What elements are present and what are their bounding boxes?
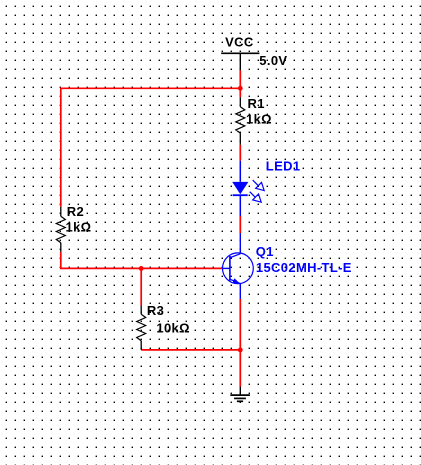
wire R1 to LED1 — [239, 145, 241, 161]
wire Q1 emitter to ground — [239, 299, 241, 387]
value 1kΩ R1 — [246, 111, 272, 126]
svg-text:1kΩ: 1kΩ — [246, 111, 272, 126]
svg-text:LED1: LED1 — [266, 159, 301, 174]
svg-text:VCC: VCC — [225, 34, 254, 49]
wire LED1 to Q1 collector — [239, 216, 241, 233]
label VCC — [225, 34, 254, 49]
label LED1 — [266, 159, 301, 174]
svg-text:R1: R1 — [248, 96, 265, 111]
wire R2 bottom to Q1 base — [61, 252, 223, 269]
ground — [230, 387, 250, 402]
wire left vertical to R2 — [60, 88, 62, 207]
junction at R3 top — [139, 266, 144, 271]
resistor R3 — [137, 306, 146, 350]
svg-text:Q1: Q1 — [256, 244, 274, 259]
label R2 — [67, 204, 84, 219]
wire VCC to R1 — [239, 70, 241, 97]
value 15C02MH-TL-E — [256, 260, 352, 275]
label Q1 — [256, 244, 274, 259]
LED LED1 — [232, 161, 264, 216]
resistor R1 — [236, 97, 245, 145]
value 10kΩ R3 — [156, 321, 190, 336]
junction at VCC rail — [238, 86, 243, 91]
power VCC symbol — [221, 53, 259, 70]
svg-text:15C02MH-TL-E: 15C02MH-TL-E — [256, 260, 352, 275]
resistor R2 — [56, 207, 65, 252]
value 5.0V — [259, 53, 287, 68]
svg-text:10kΩ: 10kΩ — [156, 321, 190, 336]
svg-text:5.0V: 5.0V — [259, 53, 287, 68]
junction at emitter net — [238, 348, 243, 353]
wire net VCC horizontal top — [61, 87, 241, 89]
svg-text:R3: R3 — [147, 303, 164, 318]
svg-text:1kΩ: 1kΩ — [66, 220, 92, 235]
label R3 — [147, 303, 164, 318]
label R1 — [248, 96, 265, 111]
svg-text:R2: R2 — [67, 204, 84, 219]
wire base net to R3 top — [140, 268, 142, 305]
transistor Q1 — [223, 233, 254, 299]
wire R3 bottom to emitter net — [141, 349, 240, 351]
value 1kΩ R2 — [66, 220, 92, 235]
